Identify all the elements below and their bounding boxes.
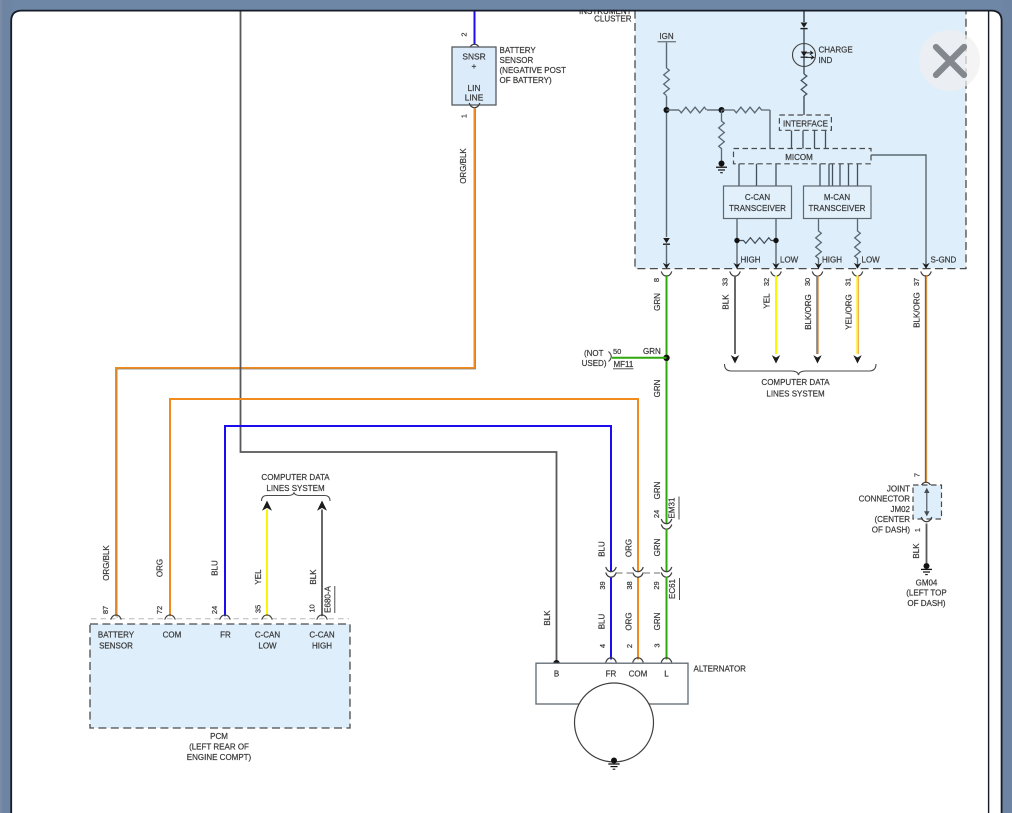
svg-text:1: 1 [460,114,469,118]
svg-text:BLU: BLU [598,541,607,557]
svg-text:LINE: LINE [465,92,484,102]
PCM dashed box [90,624,350,728]
connector cap FR [606,658,617,663]
arrow at cluster exit (S-GND) [922,263,929,269]
junction dot at alternator B [553,660,559,666]
wire BLK to ground [926,524,928,564]
wires micom to M-CAN [820,164,858,186]
dashed link BLU-ORG [617,572,633,574]
svg-text:GM04: GM04 [916,579,938,588]
svg-text:CONNECTOR: CONNECTOR [859,495,911,504]
ground (cluster internal) [719,161,725,167]
svg-text:USED): USED) [582,359,607,368]
svg-text:24: 24 [652,510,661,518]
svg-text:E680-A: E680-A [324,585,333,612]
svg-text:72: 72 [155,606,164,614]
svg-text:LOW: LOW [258,642,277,651]
connector cup BLK/ORG pin 30 [812,271,823,276]
svg-text:SENSOR: SENSOR [500,56,534,65]
wire to INTERFACE [803,96,805,115]
arrow exit C-CAN LOW [772,263,779,269]
charge indicator lamp circle [793,44,816,67]
svg-text:BLK: BLK [309,569,318,585]
inline connector EC61 on GRN [661,567,672,577]
svg-text:33: 33 [721,278,730,286]
svg-text:COMPUTER DATA: COMPUTER DATA [261,473,330,482]
svg-text:ORG/BLK: ORG/BLK [459,148,468,184]
svg-text:35: 35 [254,605,263,613]
svg-text:YEL/ORG: YEL/ORG [845,294,854,330]
svg-text:L: L [664,670,669,679]
inner page edge line [988,11,990,813]
svg-text:BLK/ORG: BLK/ORG [804,294,813,330]
wire C-CAN HIGH [736,219,738,269]
arrow YEL [772,355,780,363]
alternator circle [575,683,654,762]
svg-text:(LEFT TOP: (LEFT TOP [906,589,946,598]
LED symbol inside [801,52,807,57]
svg-text:10: 10 [308,604,317,612]
connector cap pin 24 [220,615,231,620]
svg-text:TRANSCEIVER: TRANSCEIVER [809,204,866,213]
svg-text:TRANSCEIVER: TRANSCEIVER [729,204,786,213]
wires micom to C-CAN [739,164,776,186]
svg-text:BLK/ORG: BLK/ORG [913,292,922,328]
svg-text:LINES SYSTEM: LINES SYSTEM [266,484,325,493]
diode D1 [801,23,808,28]
svg-text:LOW: LOW [862,256,881,265]
connector cap L [661,658,672,663]
svg-text:HIGH: HIGH [312,642,332,651]
micom dashed box [734,149,872,164]
arrow BLK/ORG [813,355,821,363]
svg-text:IGN: IGN [659,32,673,41]
svg-text:CHARGE: CHARGE [819,46,853,55]
svg-text:COM: COM [629,670,648,679]
svg-text:GRN: GRN [653,612,662,630]
resistor R3 horizontal [722,107,771,113]
svg-text:MICOM: MICOM [785,153,813,162]
svg-text:ORG: ORG [625,612,634,630]
svg-text:87: 87 [101,606,110,614]
svg-text:HIGH: HIGH [741,256,761,265]
svg-text:30: 30 [803,278,812,286]
connector cap pin 10 [317,615,328,620]
resistor R4 vertical below node B [719,110,725,161]
svg-text:OF BATTERY): OF BATTERY) [500,76,552,85]
connector cup S-GND pin 37 [921,271,932,276]
junction dot low [773,238,778,243]
svg-text:BLU: BLU [211,560,220,576]
svg-text:M-CAN: M-CAN [824,193,850,202]
svg-text:BLK: BLK [543,610,552,626]
node B junction dot [719,107,725,113]
svg-text:GRN: GRN [653,379,662,397]
resistor R5 [801,74,807,96]
svg-text:2: 2 [625,644,634,648]
connector cap pin 87 [111,615,122,620]
wire GRN stub MF11 [612,357,667,359]
wire R3 to MICOM [769,110,771,149]
ground GM04 [924,563,930,569]
connector cap COM [633,658,644,663]
connector cap pin 72 [165,615,176,620]
instrument cluster box fill [635,11,966,269]
svg-text:37: 37 [912,278,921,286]
resistor R6 between CAN lines [737,238,777,244]
inline connector EC61 on ORG [633,567,644,577]
svg-text:JM02: JM02 [890,505,910,514]
connector cup YEL/ORG pin 31 [852,271,863,276]
connector cup GRN pin 8 [661,271,672,276]
node MF11 junction dot [663,355,669,361]
svg-text:(NEGATIVE POST: (NEGATIVE POST [500,66,567,75]
svg-text:2: 2 [460,32,469,36]
svg-text:24: 24 [210,606,219,614]
svg-text:4: 4 [598,644,607,648]
joint connector JM02 dashed box [913,485,942,519]
svg-text:+: + [472,61,477,71]
svg-text:3: 3 [653,643,662,647]
underbrace computer data lines [725,364,877,375]
resistor R2 horizontal [679,107,707,113]
svg-text:BATTERY: BATTERY [500,46,537,55]
svg-text:FR: FR [606,670,617,679]
node A junction dot [664,107,670,113]
arrow YEL/ORG [853,355,861,363]
svg-text:EC61: EC61 [668,578,677,599]
app frame strips [0,0,1012,10]
wire M-CAN HIGH with resistor R7 [816,219,822,269]
diode on IGN wire [663,238,670,243]
svg-text:JOINT: JOINT [887,485,910,494]
svg-text:YEL: YEL [763,293,772,309]
svg-text:OF DASH): OF DASH) [907,599,946,608]
wire to node B [707,109,722,111]
svg-text:C-CAN: C-CAN [255,631,281,640]
arrow BLK [731,355,739,363]
arrow BLK up [317,501,327,511]
svg-text:8: 8 [652,278,661,282]
junction dot high [734,238,739,243]
wire MICOM to S-GND branch [871,155,926,268]
wire BLU from top [474,11,476,44]
connector cap pin 35 [262,615,273,620]
svg-text:ORG/BLK: ORG/BLK [102,545,111,581]
ground alternator [611,758,617,764]
svg-text:GRN: GRN [653,538,662,556]
svg-text:IND: IND [819,56,833,65]
arrow exit M-CAN HIGH [815,263,822,269]
wire GRN lower [666,577,668,660]
svg-text:ENGINE COMPT): ENGINE COMPT) [187,753,252,762]
svg-text:(NOT: (NOT [584,349,604,358]
inline connector EM31 [661,519,672,529]
svg-text:EM31: EM31 [668,497,677,518]
svg-text:B: B [554,670,559,679]
svg-text:PCM: PCM [210,732,228,741]
wire from node A to resistor R2 [667,109,680,111]
svg-text:GRN: GRN [653,293,662,311]
close button X [919,30,980,91]
overbrace computer data lines [262,492,331,501]
connector cap SNSR top [469,44,480,49]
svg-text:INTERFACE: INTERFACE [783,119,828,128]
alternator box [536,663,688,704]
svg-text:YEL: YEL [254,569,263,585]
svg-text:COM: COM [163,631,182,640]
svg-text:38: 38 [625,581,634,589]
svg-text:CLUSTER: CLUSTER [594,15,632,24]
svg-text:LIN: LIN [467,83,480,93]
svg-text:(LEFT REAR OF: (LEFT REAR OF [189,743,249,752]
svg-text:BATTERY: BATTERY [98,631,135,640]
svg-text:BLK: BLK [722,294,731,310]
wire M-CAN LOW with resistor R8 [855,219,861,269]
svg-text:FR: FR [220,631,231,640]
connector cup YEL pin 32 [771,271,782,276]
wire from page top [803,11,805,22]
svg-text:(CENTER: (CENTER [874,515,910,524]
svg-text:39: 39 [598,581,607,589]
resistor R-ign [664,68,670,96]
svg-text:ORG: ORG [156,559,165,577]
svg-text:MF11: MF11 [614,360,634,369]
connector cup BLK pin 33 [730,271,741,276]
wire BLK [321,510,323,617]
svg-text:GRN: GRN [643,347,661,356]
svg-text:S-GND: S-GND [931,256,957,265]
svg-text:HIGH: HIGH [822,256,842,265]
connector cup JM02 bottom [921,517,932,522]
svg-text:LOW: LOW [780,256,799,265]
svg-text:BLU: BLU [598,613,607,629]
wire IGN vertical [666,43,668,69]
arrow YEL up [262,501,272,511]
wires interface to micom [792,131,826,149]
arrow exit C-CAN HIGH [733,263,740,269]
wire YEL [266,510,268,617]
arrow exit M-CAN LOW [854,263,861,269]
svg-text:31: 31 [844,278,853,286]
connector cup SNSR bottom [469,103,480,108]
interface dashed box [779,115,831,130]
wire YEL/ORG (pin31) [856,276,858,355]
wire GRN upper [666,275,668,524]
svg-text:ORG: ORG [625,539,634,557]
wire BLK/ORG (pin30) [816,276,818,355]
svg-text:COMPUTER DATA: COMPUTER DATA [761,378,830,387]
wire BLK (pin33) [734,276,736,355]
svg-text:ALTERNATOR: ALTERNATOR [694,665,747,674]
svg-text:GRN: GRN [653,481,662,499]
svg-text:32: 32 [762,278,771,286]
svg-text:BLK: BLK [912,543,921,559]
inline connector EC61 on BLU [606,567,617,577]
arrow at cluster exit (IGN/GRN) [663,263,670,269]
wire IGN to cluster edge [666,245,668,269]
svg-text:C-CAN: C-CAN [745,193,771,202]
battery sensor box SNSR [452,47,496,105]
svg-text:OF DASH): OF DASH) [872,525,911,534]
svg-text:SENSOR: SENSOR [99,642,133,651]
svg-text:LINES SYSTEM: LINES SYSTEM [766,390,825,399]
double arrow inside JM02 [926,492,928,513]
connector arc MF11 [609,352,612,362]
connector cap JM02 top [921,482,932,487]
instrument cluster dashed border [635,11,966,269]
svg-text:SNSR: SNSR [462,52,485,62]
wire ORG/BLK sensor to PCM pin 87 [116,109,475,617]
dashed link ORG-GRN [644,572,660,574]
wire C-CAN LOW [775,219,777,269]
svg-text:29: 29 [652,581,661,589]
svg-text:50: 50 [613,347,621,356]
svg-text:7: 7 [913,473,922,477]
wire IGN below resistor [666,96,668,237]
wire GRN middle [666,529,668,572]
svg-text:C-CAN: C-CAN [309,631,335,640]
wire BLK/ORG to JM02 [924,275,926,483]
PCM pin strip dashed line [91,618,349,620]
svg-text:1: 1 [913,528,922,532]
wire into charge lamp [803,29,805,74]
wire YEL (pin32) [775,276,777,355]
